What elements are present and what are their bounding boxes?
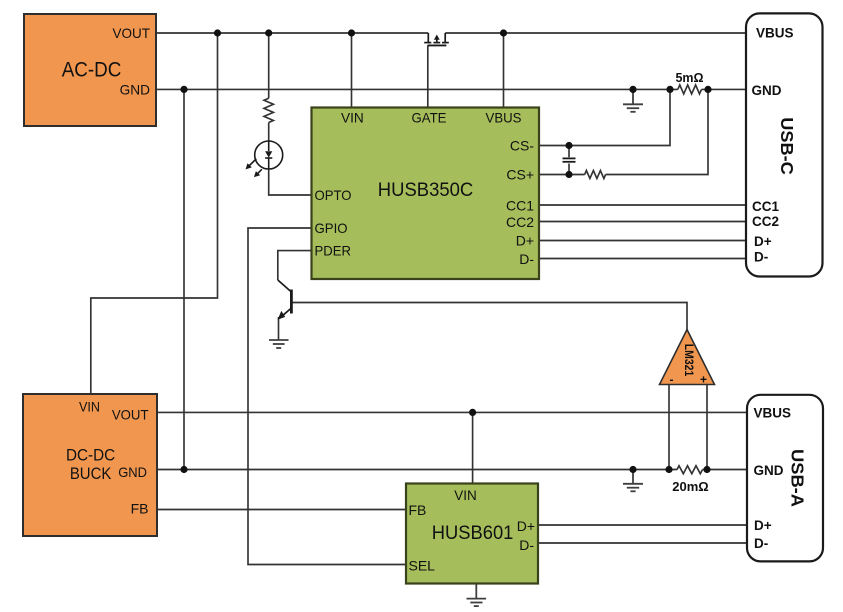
- node on VBUS-top at x=217.5: [214, 29, 221, 36]
- wire D+ (USB-C): [539, 240, 746, 242]
- wire U2 VIN stub: [472, 412, 474, 483]
- svg-text:D+: D+: [516, 233, 534, 249]
- svg-text:CC2: CC2: [752, 214, 779, 229]
- mosfet Q1: [424, 33, 449, 45]
- svg-text:DC-DC: DC-DC: [66, 445, 115, 464]
- ground G1 (top shunt): [623, 89, 643, 111]
- svg-text:+: +: [700, 373, 707, 387]
- svg-text:OPTO: OPTO: [315, 187, 352, 203]
- wire VBUS-top right segment (Q1 source to USB-C VBUS): [445, 32, 746, 34]
- node on GND-top at x=184: [180, 86, 187, 93]
- wire CS- (U1 to R3 left node): [539, 89, 670, 145]
- svg-text:VOUT: VOUT: [112, 407, 149, 423]
- svg-text:VIN: VIN: [454, 487, 477, 503]
- block HUSB350C U1: [312, 108, 540, 280]
- wire opto D1 to OPTO pin: [269, 169, 312, 195]
- wire GND-bottom right segment (R4 to USB-A GND): [702, 469, 747, 471]
- node R3 left: [666, 86, 673, 93]
- wire GND-bottom left segment (DC-DC GND to R4): [157, 469, 677, 471]
- wire FB (DC-DC FB to U2 FB): [157, 509, 406, 511]
- node R4 left: [665, 466, 672, 473]
- svg-text:VIN: VIN: [79, 399, 100, 415]
- wire GPIO to SEL: [248, 228, 406, 565]
- wire GND-top left segment (AC-DC GND to R3): [156, 88, 678, 90]
- svg-text:5mΩ: 5mΩ: [675, 71, 703, 85]
- connector USB-A: [747, 395, 823, 562]
- svg-text:GND: GND: [120, 82, 150, 98]
- node on VBUS-A at x=472.6: [469, 409, 476, 416]
- ground G3 (bottom shunt): [623, 470, 643, 492]
- opto-LED D1: [246, 141, 283, 177]
- resistor R3 5mOhm shunt: [675, 71, 703, 94]
- connector USB-C: [746, 13, 823, 276]
- op-amp U3 LM321: [660, 330, 715, 387]
- wire U2 D- to USB-A D-: [538, 542, 747, 544]
- wire R1 top stub (VBUS-top to R1): [268, 33, 270, 98]
- node R3 right: [704, 86, 711, 93]
- svg-text:VIN: VIN: [341, 109, 364, 125]
- svg-text:CS+: CS+: [506, 167, 534, 183]
- node on GND-top at x=633 (ground tap): [629, 86, 636, 93]
- wire C1 stubs: [568, 146, 570, 158]
- wire PDER to Q2 collector: [278, 251, 312, 280]
- svg-text:D-: D-: [519, 251, 534, 267]
- svg-text:USB-C: USB-C: [777, 117, 797, 175]
- ground G2 (Q2 emitter): [269, 340, 289, 348]
- svg-text:D-: D-: [754, 536, 768, 551]
- node on GND-bottom at x=632 (ground tap): [629, 466, 636, 473]
- node on VBUS-top at x=503.5: [500, 29, 507, 36]
- block HUSB601 U2: [406, 484, 538, 584]
- wire CS+ left segment (U1 to R2): [539, 174, 585, 176]
- wire GND-top right segment (R3 to USB-C GND): [702, 88, 747, 90]
- svg-text:USB-A: USB-A: [788, 449, 808, 507]
- svg-text:20mΩ: 20mΩ: [672, 479, 708, 494]
- wire CC1: [539, 204, 746, 206]
- svg-text:HUSB601: HUSB601: [432, 523, 514, 544]
- wire VBUS-top left segment (AC-DC VOUT to Q1 drain): [156, 32, 428, 34]
- svg-text:BUCK: BUCK: [70, 464, 112, 483]
- svg-text:VBUS: VBUS: [754, 406, 792, 421]
- wire node B vertical (GND-top to DC-DC GND): [183, 89, 185, 469]
- svg-text:VOUT: VOUT: [113, 25, 151, 41]
- svg-text:-: -: [670, 373, 674, 387]
- block AC-DC: [24, 14, 156, 126]
- svg-text:LM321: LM321: [682, 344, 694, 377]
- svg-text:GATE: GATE: [412, 109, 447, 125]
- wire Q2 base to U3 output: [292, 303, 687, 330]
- wire Q2 emitter to ground: [278, 317, 280, 340]
- wire node A vertical (VBUS-top to DC-DC VIN link): [91, 33, 218, 394]
- svg-text:CC1: CC1: [752, 199, 779, 214]
- capacitor C1: [563, 158, 576, 161]
- svg-text:SEL: SEL: [409, 557, 436, 573]
- svg-text:GND: GND: [754, 463, 784, 478]
- wire U3 inverting input: [668, 385, 670, 470]
- wire U3 non-inverting input: [706, 385, 708, 470]
- transistor Q2 NPN: [278, 280, 292, 320]
- wire R1 to opto D1: [268, 123, 270, 142]
- svg-text:CC2: CC2: [506, 214, 534, 230]
- wire U1 VBUS stub: [503, 33, 505, 108]
- wire D- (USB-C): [539, 258, 746, 260]
- wire U2 D+ to USB-A D+: [538, 524, 747, 526]
- svg-text:D+: D+: [754, 234, 772, 249]
- svg-text:FB: FB: [131, 501, 149, 517]
- svg-text:D+: D+: [754, 518, 772, 533]
- svg-text:GPIO: GPIO: [315, 220, 348, 236]
- wire CC2: [539, 221, 746, 223]
- svg-text:HUSB350C: HUSB350C: [378, 180, 473, 201]
- node R4 right: [703, 466, 710, 473]
- svg-text:D+: D+: [517, 518, 535, 534]
- resistor R4 20mOhm shunt: [672, 466, 708, 494]
- svg-text:D-: D-: [754, 250, 768, 265]
- node CS- cap tap: [565, 142, 572, 149]
- svg-text:GND: GND: [118, 464, 147, 480]
- node on GND-bottom at x=184: [180, 466, 187, 473]
- svg-text:CS-: CS-: [510, 138, 534, 154]
- wire VBUS-A (DC-DC VOUT to USB-A VBUS): [157, 411, 747, 413]
- svg-text:PDER: PDER: [315, 243, 352, 259]
- resistor R1 (opto series): [264, 98, 273, 122]
- block DC-DC BUCK: [23, 394, 157, 536]
- wire Q1 gate to U1 GATE pin: [427, 45, 429, 107]
- svg-text:GND: GND: [752, 83, 782, 98]
- svg-text:D-: D-: [519, 537, 534, 553]
- wire C1 lower stub: [568, 164, 570, 175]
- wire CS+ right segment (R2 to R3 right node): [606, 89, 708, 174]
- node on VBUS-top at x=351.5: [348, 29, 355, 36]
- svg-text:AC-DC: AC-DC: [62, 59, 122, 82]
- svg-text:VBUS: VBUS: [756, 26, 794, 41]
- svg-text:CC1: CC1: [506, 198, 534, 214]
- resistor R2 (CS+ series): [585, 171, 606, 179]
- svg-text:VBUS: VBUS: [486, 109, 522, 125]
- node on VBUS-top at x=268.7: [265, 29, 272, 36]
- node CS+ cap tap: [565, 171, 572, 178]
- svg-text:FB: FB: [409, 502, 427, 518]
- ground G4 (U2): [467, 584, 487, 607]
- wire U1 VIN stub: [351, 33, 353, 108]
